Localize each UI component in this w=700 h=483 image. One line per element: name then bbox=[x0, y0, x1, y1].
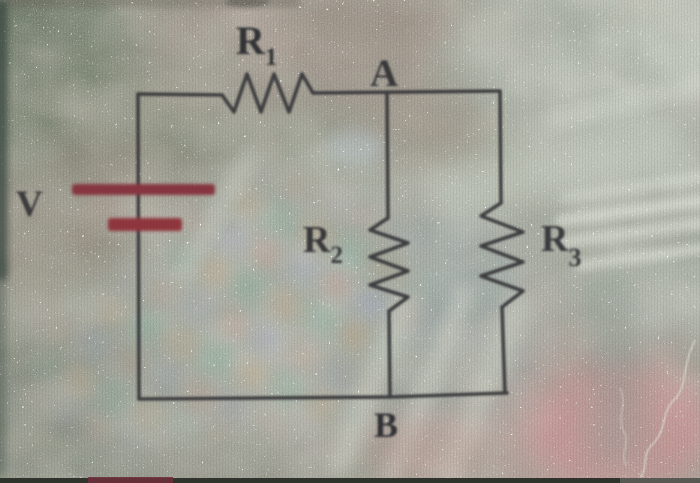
resistor R2 bbox=[370, 218, 408, 311]
white lightning streak bottom right bbox=[640, 340, 695, 478]
wire R2 bottom bbox=[389, 311, 390, 397]
center rainbow moire patches bbox=[128, 150, 450, 460]
dark left edge bbox=[0, 0, 7, 280]
glare streaks bottom center (diagonal) bbox=[173, 147, 532, 483]
wire top right (R1 to node A to top-right corner) bbox=[313, 91, 500, 93]
dark smudge top edge above R1 bbox=[225, 0, 269, 7]
top edge dark tint bbox=[0, 0, 300, 6]
teal band right-mid bbox=[590, 270, 645, 470]
dark bottom edge bbox=[0, 478, 700, 483]
wire R3 bottom bbox=[502, 307, 505, 393]
wire bottom bbox=[139, 393, 507, 399]
pink glow bottom right bbox=[523, 367, 700, 483]
wire top left (battery + to R1) bbox=[138, 94, 222, 95]
wire left vertical bbox=[138, 94, 139, 399]
wire node A down to R2 bbox=[387, 92, 388, 218]
battery V long plate bbox=[72, 184, 215, 195]
resistor R3 bbox=[481, 203, 523, 307]
resistor R1 bbox=[222, 74, 313, 112]
wire right vertical top bbox=[500, 91, 501, 203]
glare streaks right side bbox=[427, 75, 700, 271]
bluish glare blob above R2 bbox=[326, 131, 386, 165]
battery V short plate bbox=[108, 218, 182, 231]
